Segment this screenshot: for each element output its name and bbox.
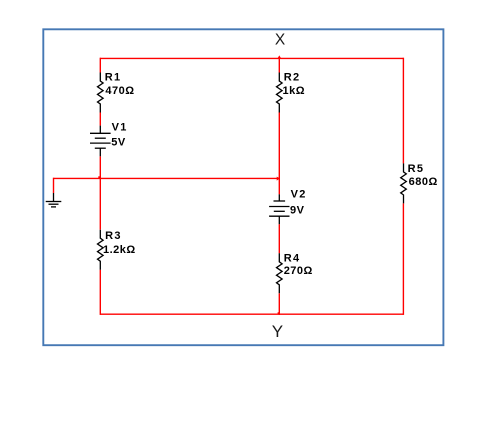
svg-text:270Ω: 270Ω — [284, 265, 313, 277]
svg-text:R5: R5 — [408, 163, 425, 175]
svg-text:5V: 5V — [111, 137, 126, 149]
svg-text:X: X — [275, 31, 286, 48]
svg-text:R3: R3 — [105, 230, 122, 242]
svg-text:1kΩ: 1kΩ — [283, 85, 306, 97]
svg-text:R1: R1 — [105, 72, 122, 84]
svg-text:1.2kΩ: 1.2kΩ — [103, 244, 136, 256]
svg-text:V2: V2 — [291, 189, 307, 201]
svg-text:470Ω: 470Ω — [105, 85, 134, 97]
svg-text:R2: R2 — [284, 72, 301, 84]
svg-text:R4: R4 — [284, 253, 301, 265]
svg-text:680Ω: 680Ω — [409, 176, 438, 188]
svg-text:9V: 9V — [290, 204, 305, 216]
svg-text:V1: V1 — [112, 122, 128, 134]
svg-text:Y: Y — [272, 322, 283, 341]
